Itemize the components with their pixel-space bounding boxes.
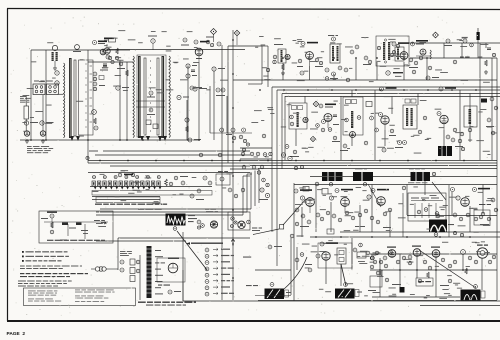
sound takeoff coil T3 [273, 44, 286, 64]
resistor R9 [212, 67, 225, 71]
tube V26 [316, 252, 330, 260]
wire [384, 130, 386, 146]
label 115VAC [120, 251, 132, 256]
mixer label 6J6 [194, 40, 209, 44]
wire [309, 66, 311, 80]
vert osc transformer [337, 248, 346, 264]
yoke block B8 [461, 285, 486, 301]
right column parts [453, 198, 498, 225]
wire [340, 96, 342, 160]
audio output box [416, 278, 433, 286]
wire [420, 305, 500, 307]
diamond test point TP1 [211, 29, 217, 43]
wire [183, 300, 500, 302]
wire [139, 255, 141, 300]
wire [45, 50, 47, 140]
wire [485, 43, 487, 48]
wire [351, 135, 353, 146]
wire [479, 43, 481, 160]
label DETECTOR 6T8 [392, 42, 409, 46]
interlock cable [145, 246, 154, 298]
pins far right [490, 97, 498, 110]
wire [409, 42, 500, 44]
resistor box R14 [24, 95, 43, 131]
alignment box frame [39, 211, 113, 243]
wire [182, 232, 184, 301]
vert osc box [318, 243, 352, 268]
diamond TP2 [234, 30, 240, 45]
wire [90, 186, 212, 188]
tube V9 6AU6 [306, 52, 314, 66]
wire [417, 94, 419, 106]
wire [333, 74, 335, 80]
wire [410, 57, 497, 59]
capacitor C1 [104, 38, 116, 42]
wire [96, 211, 247, 213]
black block flyback B2 [322, 172, 343, 186]
sound IF transformer T4 [328, 35, 340, 63]
video IF box 2 [343, 97, 363, 135]
wire [351, 238, 353, 270]
resistor R11 [325, 66, 342, 79]
wire [282, 63, 284, 80]
tuner inner box [92, 191, 212, 203]
wire [355, 58, 357, 80]
tube V5 pins [148, 36, 157, 51]
IF coil L2 winding [133, 56, 134, 138]
wire [262, 45, 268, 47]
connector labels [221, 249, 234, 294]
wire [294, 184, 497, 186]
horizontal coil L4 [430, 50, 431, 59]
label VHF tuner [138, 209, 162, 210]
wire [295, 129, 297, 146]
label SYNC SEP 6AW8 [335, 189, 353, 193]
border frame top [7, 9, 500, 10]
wire [315, 185, 317, 232]
bus pins column [239, 68, 269, 139]
wire [240, 158, 272, 160]
wire to yoke R [341, 264, 346, 286]
wire [100, 208, 251, 210]
wire [351, 90, 353, 97]
interlock pins [231, 217, 238, 228]
small black connector [400, 287, 405, 293]
wire [254, 171, 256, 207]
converter cluster [92, 110, 98, 130]
tuner label [118, 173, 135, 177]
waveform label [188, 215, 197, 222]
wire [293, 183, 295, 301]
wire [182, 270, 184, 301]
wire [462, 254, 464, 270]
tube V19 [437, 112, 448, 131]
tube V2b [55, 81, 59, 85]
IF T right core [162, 56, 165, 138]
wire [187, 66, 189, 140]
diagonal to yoke B8 [419, 250, 476, 288]
tube V13 pins [426, 76, 439, 80]
wire [107, 49, 245, 51]
mixer out pins [203, 171, 230, 185]
wire [461, 43, 463, 58]
wire [359, 205, 361, 232]
resistor R8 [186, 74, 197, 78]
alignment input [47, 212, 57, 234]
horiz output box [474, 204, 491, 225]
IF T right slug [157, 58, 159, 135]
wire [310, 236, 500, 238]
wire [296, 247, 298, 270]
left bottom parts [368, 256, 382, 291]
yoke R block B7 [335, 283, 362, 299]
band pins [86, 139, 250, 159]
oscillator pins [190, 42, 221, 90]
label AGC KEYER 6AU8 [294, 189, 312, 193]
wire [250, 165, 497, 167]
wire [255, 269, 291, 271]
wire [118, 237, 250, 239]
pins below integrator [434, 231, 463, 236]
plug pins cluster [197, 220, 204, 229]
resistor R4 [116, 86, 129, 90]
tube V22 6AU8 [300, 196, 314, 213]
arrow tip bottom [140, 136, 167, 141]
wire [340, 264, 342, 286]
label IF AMP 6CB6 [380, 87, 397, 91]
connector pins column [205, 248, 209, 296]
wire [370, 253, 497, 255]
arrow tip bottom [70, 136, 80, 141]
label X RAY 6BC8 [93, 41, 108, 45]
capacitor C2 [103, 56, 114, 65]
long diagonal to tuner [253, 199, 306, 235]
wire [371, 185, 373, 233]
tube V10 pins [344, 45, 359, 72]
wire [96, 240, 186, 242]
pin row lower [242, 165, 264, 169]
tuner bottom parts [190, 188, 245, 200]
wire [374, 90, 376, 160]
capacitors C8 C9 [216, 88, 225, 96]
diamond TP5 [310, 136, 315, 141]
wire [406, 185, 408, 216]
wire [271, 87, 273, 232]
wire [228, 45, 262, 47]
wire [340, 231, 500, 233]
wire [284, 96, 286, 160]
resistor R13 [332, 136, 340, 142]
wire [330, 202, 332, 232]
antenna transformer T1 [52, 45, 58, 70]
label 4.5MC lower [243, 257, 258, 287]
wire [95, 154, 250, 156]
power transformer T6 [377, 39, 404, 63]
grid parts [316, 115, 339, 132]
tube V15 [322, 114, 333, 129]
capacitor C14 [428, 48, 495, 70]
CRT socket [477, 245, 488, 259]
IF strip B dots [150, 60, 151, 131]
pin row upper [241, 152, 272, 156]
alignment caption [47, 240, 105, 241]
resistor R6 [188, 138, 201, 142]
arrow up symbol [231, 239, 235, 246]
wire [250, 172, 252, 209]
wire [290, 238, 292, 295]
wire [285, 96, 500, 98]
label SOUND IF 6AU6 [301, 42, 318, 46]
tuner text row [95, 204, 167, 205]
socket box [157, 258, 185, 282]
height control parts [295, 253, 312, 272]
wire [272, 86, 500, 88]
resistor R10 [281, 64, 285, 75]
bottom row parts b [380, 268, 468, 286]
wire [372, 296, 460, 298]
notes column 1 [28, 291, 61, 302]
wire [227, 46, 229, 163]
wire [20, 139, 200, 141]
IF coil L3 winding [169, 56, 170, 138]
volume parts [363, 56, 372, 65]
wire [376, 62, 378, 80]
wire [233, 79, 497, 81]
svg-text:PAGE 2: PAGE 2 [7, 331, 26, 337]
capacitor C4 [93, 82, 105, 91]
diagonal into integrator [432, 182, 446, 200]
quad coil T5 [390, 47, 404, 61]
tube V25 [456, 196, 469, 206]
wire [226, 96, 228, 133]
pilot lamp [386, 71, 403, 75]
label IF AMP 6DC6 [439, 87, 456, 91]
IF can T9 [403, 99, 417, 129]
note bullets [18, 251, 88, 287]
notes table frame [24, 288, 136, 306]
wire [451, 192, 453, 215]
tube V27 [383, 247, 396, 260]
tube V23 6AW8 [329, 196, 349, 213]
wire [243, 175, 250, 177]
wire [424, 176, 426, 195]
wire [198, 62, 200, 140]
interlock socket K3 [238, 221, 245, 228]
wire [443, 130, 445, 146]
blocking osc parts [353, 243, 392, 268]
label VERT MULT [371, 189, 389, 193]
label TV outlet [158, 285, 170, 286]
IF T left slug [144, 58, 146, 135]
IF T left core [138, 56, 141, 138]
wire [304, 96, 306, 103]
wire [435, 257, 437, 297]
power parts column [120, 259, 140, 282]
resistor R5 [126, 70, 129, 76]
remote diagonal wire [177, 231, 207, 270]
tube V1 6BC8 [104, 38, 114, 55]
tube V2a [55, 71, 59, 75]
wire [31, 49, 130, 51]
black block T12 B4 [408, 168, 436, 183]
wire [370, 269, 497, 271]
black block horiz output B5 [429, 214, 454, 232]
IF can T10 [464, 99, 487, 132]
tube base pins [168, 290, 181, 294]
wire [258, 168, 497, 170]
cable labels [155, 250, 165, 294]
loop pins [247, 165, 304, 238]
detector parts [409, 56, 423, 74]
wire [267, 46, 269, 87]
resistor R1 [73, 45, 81, 52]
tube V18 6CB6 [379, 113, 390, 131]
tube V29 [431, 247, 440, 258]
label AC DC TERMINAL BOARD [20, 96, 31, 103]
wire [88, 160, 497, 162]
tube V30 small [461, 250, 466, 255]
tube V24 [367, 195, 385, 205]
diamond TP3 [433, 32, 439, 38]
wire [96, 214, 243, 216]
cathode pins 2 [446, 135, 465, 151]
notes column 2 [75, 290, 115, 302]
border frame bottom [7, 320, 500, 322]
tube V28 [408, 246, 421, 259]
tuner right parts [165, 176, 188, 186]
tube V6 mixer [195, 48, 203, 62]
curve wire to yoke L [284, 257, 307, 289]
capacitor C6 [117, 62, 125, 69]
wire [213, 71, 215, 140]
label OSCILLATOR 6T8 [411, 40, 428, 46]
diagonal wire right [368, 184, 381, 207]
wire [281, 94, 283, 170]
wire [230, 168, 259, 170]
wire [426, 58, 428, 80]
wire [491, 58, 493, 160]
label 4.5MC TRAP [319, 104, 336, 108]
tubes V17 pair [281, 153, 292, 161]
label Power Input [460, 57, 470, 58]
tube pin [402, 186, 454, 191]
tube V3 [100, 49, 110, 59]
resistor R2 [115, 48, 118, 60]
yoke plug K2 [210, 221, 217, 228]
remote control label [252, 228, 262, 231]
tube V11 6T8 [400, 52, 408, 60]
IF strip B frame [137, 55, 166, 137]
pin row mid [210, 128, 252, 140]
wire [232, 30, 234, 300]
IF strip A shield [79, 60, 94, 135]
resistors stage2 [453, 118, 495, 136]
coupling parts [315, 58, 323, 67]
wire [482, 185, 484, 215]
wire [261, 46, 263, 84]
label vert out [268, 245, 282, 249]
label VERT OSC [320, 242, 338, 246]
IF strip B inner parts [136, 91, 165, 129]
annotation text specks [22, 30, 496, 299]
wire [209, 86, 211, 133]
wire [246, 174, 248, 212]
wire [186, 100, 188, 140]
capacitor C7 [191, 70, 195, 72]
wire [242, 176, 244, 215]
wire [325, 260, 327, 284]
cathode pins [382, 141, 407, 153]
wire [92, 196, 160, 198]
resistor R7 [186, 64, 197, 68]
alignment wires [41, 218, 108, 222]
wire [248, 83, 262, 85]
wire [221, 45, 223, 300]
small cluster [206, 37, 214, 47]
IF coil L1 winding [64, 63, 65, 138]
capacitor C13 [463, 39, 473, 47]
resistor R3 [100, 66, 108, 71]
resistors stage1 [389, 116, 427, 136]
capacitor C11 [325, 77, 350, 82]
wire [255, 295, 291, 297]
tube V8 [285, 54, 290, 59]
power trans box [376, 36, 409, 66]
wire [459, 90, 461, 160]
wire [379, 258, 381, 297]
wire [117, 238, 119, 270]
label ALTERNATE TUNER [27, 146, 53, 153]
schematic caption [138, 302, 196, 306]
tube V7 pins [181, 38, 189, 46]
wire [126, 62, 128, 140]
yoke L block B6 [265, 283, 292, 299]
wire [258, 300, 497, 302]
border frame left [7, 9, 9, 322]
wire [247, 173, 252, 175]
wire [443, 43, 445, 58]
IF strip A core bar [69, 58, 72, 138]
wire [282, 93, 500, 95]
wire [240, 147, 272, 149]
waveform scope box [166, 214, 186, 231]
AGC row resistors [295, 208, 392, 234]
wire [87, 50, 89, 163]
tube V20 pins [259, 188, 270, 200]
wire [469, 206, 471, 232]
capacitor C12 [444, 39, 452, 46]
wire [407, 215, 497, 217]
alignment parts [60, 220, 107, 240]
wire [399, 254, 401, 287]
wire [403, 62, 405, 80]
wire [416, 256, 418, 278]
tube V14 [303, 117, 308, 122]
wires vert section [403, 185, 449, 237]
tuner top pins [93, 176, 161, 179]
AC line plug [91, 267, 118, 271]
wire [277, 89, 500, 91]
bottom row parts a [370, 255, 496, 275]
wire [92, 199, 160, 201]
label 6SN7GTB [473, 188, 491, 192]
capacitor C3 [93, 72, 104, 81]
wire [389, 210, 391, 237]
video IF T7 [290, 106, 303, 128]
wire [88, 162, 497, 164]
tuner slug arrows [94, 187, 162, 190]
yoke plug label [205, 209, 218, 213]
